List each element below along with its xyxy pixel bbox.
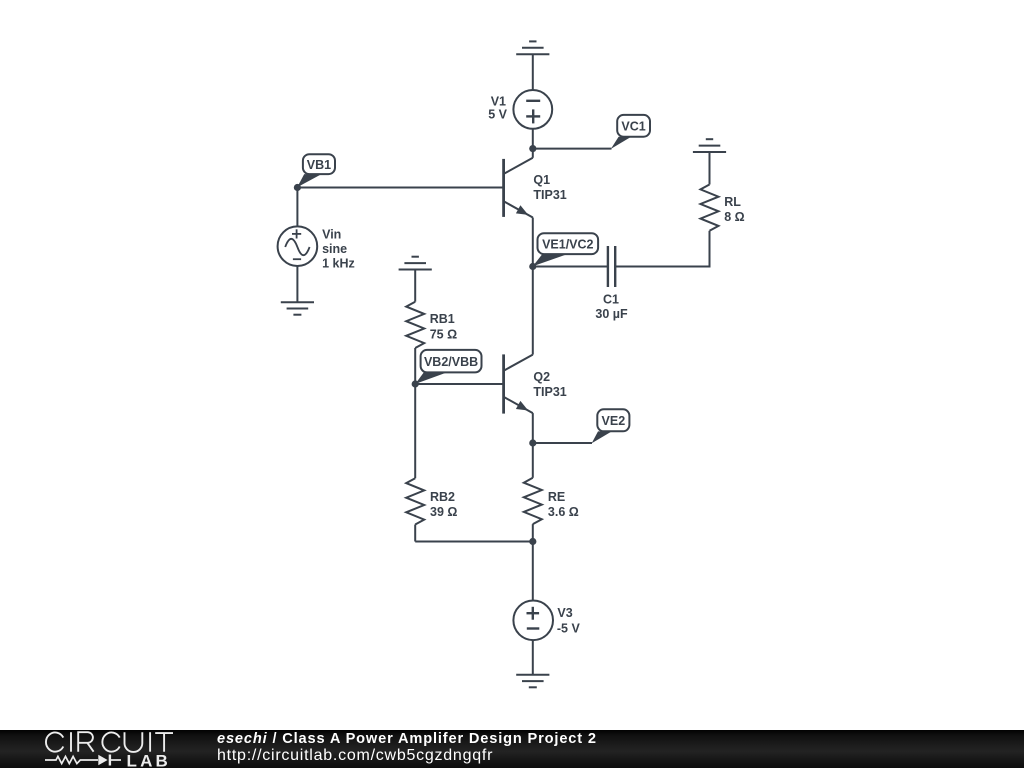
svg-text:V3: V3: [557, 606, 572, 620]
CircuitLab logo letter I: [70, 732, 72, 752]
svg-text:sine: sine: [322, 242, 347, 256]
wire ground to RL: [709, 152, 711, 185]
wire node to VC1 flag: [533, 148, 612, 150]
svg-text:VC1: VC1: [621, 119, 645, 133]
CircuitLab logo letter C: [102, 732, 119, 751]
CircuitLab logo letter C: [46, 732, 63, 751]
flag VB2/VBB: [415, 350, 481, 384]
footer black bar: [0, 730, 1024, 768]
wire VB1 node to Q1 base: [297, 187, 503, 189]
svg-text:VB1: VB1: [307, 158, 331, 172]
svg-text:5 V: 5 V: [488, 108, 507, 122]
wire Vin to ground: [296, 266, 298, 302]
svg-text:RE: RE: [548, 490, 565, 504]
flag VB1: [297, 154, 335, 187]
wire Q2 emitter to node VE2: [532, 413, 534, 443]
ground above V1: [516, 41, 549, 54]
svg-text:Q2: Q2: [533, 370, 550, 384]
svg-text:RL: RL: [724, 195, 741, 209]
svg-text:TIP31: TIP31: [533, 385, 566, 399]
node VE2 junction: [529, 439, 536, 446]
wire RB1 to node VB2: [414, 348, 416, 384]
node VE1/VC2 junction: [529, 263, 536, 270]
voltage source V3: [513, 601, 553, 641]
svg-text:VE1/VC2: VE1/VC2: [542, 237, 593, 251]
svg-text:-5 V: -5 V: [557, 622, 581, 636]
flag VC1: [611, 115, 650, 149]
svg-text:RB1: RB1: [430, 312, 455, 326]
wire V1 to top ground: [532, 54, 534, 90]
label RB1 75 ohm: [430, 312, 457, 342]
CircuitLab logo letter T: [155, 733, 173, 752]
capacitor C1: [608, 246, 615, 287]
wire node to C1: [533, 266, 608, 268]
footer title esechi / project name: [217, 732, 597, 747]
node VC1 junction: [529, 145, 536, 152]
label V3 value: [557, 606, 581, 636]
CircuitLab logo letter I: [149, 732, 151, 752]
wire V1 to node VC1: [532, 129, 534, 149]
svg-text:C1: C1: [603, 293, 619, 307]
svg-text:V1: V1: [491, 95, 506, 109]
svg-text:VB2/VBB: VB2/VBB: [424, 355, 478, 369]
svg-text:VE2: VE2: [602, 414, 626, 428]
node bottom junction: [529, 538, 536, 545]
wire V3 to bottom ground: [532, 640, 534, 675]
flag VE2: [592, 409, 630, 443]
label RE 3.6 ohm: [548, 490, 579, 519]
resistor RB1: [406, 302, 424, 348]
voltage source V1: [513, 90, 552, 129]
resistor RL: [701, 185, 719, 231]
label V1 value: [488, 95, 507, 122]
svg-text:3.6 Ω: 3.6 Ω: [548, 505, 579, 519]
footer url: [217, 748, 493, 764]
svg-text:LAB: LAB: [127, 751, 172, 768]
wire VE2 node to RE: [532, 443, 534, 478]
svg-text:8 Ω: 8 Ω: [724, 210, 744, 224]
svg-text:1 kHz: 1 kHz: [322, 256, 355, 270]
node VB1 junction: [294, 184, 301, 191]
wire VB1 node to Vin: [296, 188, 298, 227]
wire Q1 emitter to node VE1/VC2: [532, 218, 534, 267]
transistor Q1: [504, 149, 533, 218]
wire C1 to RL: [615, 266, 709, 268]
label RL 8 ohm: [724, 195, 744, 224]
wire RE to bottom node: [532, 524, 534, 541]
flag VE1/VC2: [533, 233, 598, 266]
label Q1 TIP31: [533, 173, 566, 202]
CircuitLab logo letter R: [78, 732, 93, 752]
transistor Q2: [504, 267, 533, 414]
svg-text:RB2: RB2: [430, 490, 455, 504]
wire RB2 to bottom rail: [414, 525, 416, 542]
CircuitLab logo diode: [98, 755, 107, 766]
svg-text:75 Ω: 75 Ω: [430, 328, 457, 342]
wire VB2 node to Q2 base: [415, 383, 503, 385]
label RB2 39 ohm: [430, 490, 457, 519]
svg-text:39 Ω: 39 Ω: [430, 505, 457, 519]
label Q2 TIP31: [533, 370, 566, 399]
wire bottom node to V3: [532, 542, 534, 602]
ground below Vin: [281, 302, 314, 315]
svg-text:30 µF: 30 µF: [595, 307, 628, 321]
wire ground to RB1: [414, 270, 416, 302]
resistor RE: [524, 478, 542, 524]
wire node to VE2 flag: [533, 442, 592, 444]
resistor RB2: [406, 478, 424, 524]
label Vin sine 1 kHz: [322, 228, 355, 271]
ground above RL: [693, 139, 726, 152]
ground below V3: [516, 675, 549, 688]
CircuitLab logo resistor zigzag and wire: [45, 756, 98, 763]
source Vin sine: [278, 226, 318, 266]
label C1 30 uF: [595, 293, 628, 321]
svg-text:TIP31: TIP31: [533, 188, 566, 202]
wire VB2 node to RB2: [414, 384, 416, 478]
svg-text:Q1: Q1: [533, 173, 550, 187]
CircuitLab logo letter U: [125, 732, 143, 752]
svg-text:Vin: Vin: [322, 228, 341, 242]
ground above RB1: [399, 257, 432, 270]
node VB2/VBB junction: [412, 380, 419, 387]
